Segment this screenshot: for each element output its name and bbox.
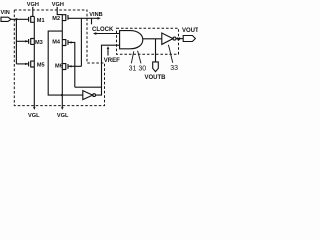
svg-text:30: 30 [138,65,146,72]
AND gate 30 [120,31,143,49]
wire VINB branch down to M6 gate [80,18,82,66]
wire feedback tee to M4 gate [75,86,102,88]
svg-text:VIN: VIN [1,10,10,16]
svg-text:M3: M3 [35,40,43,46]
svg-text:CLOCK: CLOCK [92,27,114,33]
left dashed box (level shifter block, L-shaped) [14,10,104,106]
leader line 31 [131,51,134,63]
svg-text:VGH: VGH [52,2,64,8]
svg-text:VGL: VGL [57,113,69,119]
wire VGH2 drop [57,7,62,15]
inverter 33 [162,33,173,44]
svg-text:VINB: VINB [89,12,102,18]
arrowhead into M5 gate [25,63,28,65]
svg-text:VREF: VREF [104,58,120,64]
arrowhead into M6 gate [69,65,72,67]
svg-text:VOUTB: VOUTB [145,75,167,81]
arrowhead into M3 gate [25,40,28,42]
arrowhead VGL2 [61,107,64,110]
wire VIN branch down [15,19,17,64]
x mark on wire [177,38,180,41]
wire CLOCK to gate [96,33,120,35]
arrowhead into M4 gate [69,41,72,43]
leader line 33 [168,45,173,63]
output terminal VOUTB (down pentagon) [153,62,159,72]
svg-text:M5: M5 [37,63,45,69]
wire left column bus (VGH to VGL via M1,M3,M5) [33,16,35,108]
node VIN junction dot [15,18,17,20]
wire M6 gate lead to VINB branch [69,65,82,67]
svg-text:VGL: VGL [28,113,40,119]
arrow VREF up to gate input wire [107,48,109,55]
transistor M6 (mirrored) [62,63,68,70]
arrowhead on inverter input wire [61,94,64,96]
svg-text:M1: M1 [37,18,45,24]
transistor M2 (mirrored) [62,14,68,21]
wire VGH1 drop [32,7,34,17]
wire VIN to M1 gate [11,18,29,20]
wire M4 gate feedback lead [69,42,75,87]
svg-text:VOUT: VOUT [182,28,198,34]
arrowhead VGL1 [33,107,36,110]
transistor M3 [29,38,35,45]
transistor M1 [29,16,35,23]
input terminal VIN [1,17,11,21]
svg-text:33: 33 [170,65,178,72]
transistor M4 (mirrored) [62,39,68,46]
wire M2/M4 node jog to inverter input [48,31,83,95]
wire M5 gate feed [16,63,28,65]
wire inverter output loop [96,45,120,95]
wire M2 gate to VINB (exits box) [68,17,98,19]
leader line 30 [138,51,141,64]
output terminal VOUT [183,36,195,42]
arrowhead CLOCK (points left) [93,32,96,35]
transistor M5 [29,61,35,68]
wire right column bus (VGH to VGL via M2,M4,M6) [61,15,63,109]
svg-text:M2: M2 [52,16,60,22]
svg-text:M6: M6 [55,63,63,69]
svg-text:31: 31 [129,65,137,72]
wire VOUTB drop [155,39,157,62]
arrowhead VINB [98,17,101,20]
wire gate output [143,38,162,40]
right dashed box (gate block 31) [117,28,179,54]
wire M3 gate feed [16,40,28,42]
svg-text:M4: M4 [52,39,61,45]
inverter U1 in level shifter [83,91,93,100]
wire inverter to VOUT [176,38,183,40]
wire tick below VINB arrow [91,18,93,24]
